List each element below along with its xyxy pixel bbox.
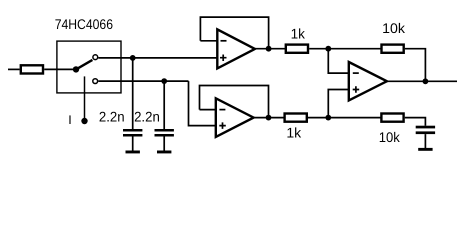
switch throw contact bottom (93, 79, 98, 84)
wire C1 top lead (132, 58, 134, 129)
capacitor C3 (416, 126, 435, 129)
node dot U1 output (266, 46, 272, 52)
control terminal dot (81, 118, 87, 124)
ground C2 (157, 151, 171, 154)
wire U3 plus input (328, 90, 349, 118)
resistor R3 10k top (382, 45, 404, 53)
svg-text:10k: 10k (379, 129, 401, 145)
op-amp U2 buffer bottom (216, 98, 254, 137)
node dot U2 output (266, 115, 272, 121)
op-amp U1 buffer top (217, 29, 255, 68)
U2 minus glyph (219, 109, 225, 111)
resistor R input (unlabeled) (21, 65, 43, 73)
control line (84, 76, 86, 121)
wire U3 output (387, 80, 457, 82)
U1 plus glyph (220, 54, 227, 61)
wire R4 to C3 (405, 118, 426, 126)
wire C3 bottom lead (424, 134, 426, 148)
wire U1 minus input (200, 40, 217, 42)
U3 minus glyph (353, 72, 359, 74)
svg-text:1k: 1k (291, 25, 306, 41)
wire R1 to node A (309, 48, 381, 50)
svg-text:I: I (68, 113, 71, 127)
wire R2 to node B (308, 117, 381, 119)
svg-text:2.2n: 2.2n (99, 108, 125, 124)
wire U1 feedback loop (200, 17, 268, 49)
node dot B (325, 115, 331, 121)
wire C2 top lead (163, 81, 165, 129)
node dot A (325, 46, 331, 52)
ground C3 (418, 148, 432, 151)
switch pole dot (73, 66, 79, 72)
capacitor C2 2.2n (155, 129, 174, 132)
wire input left (8, 68, 20, 70)
capacitor C1 2.2n (123, 129, 142, 132)
svg-text:1k: 1k (286, 125, 302, 141)
wire U1 output (255, 48, 286, 50)
op-amp U3 right (349, 62, 387, 100)
U3 plus glyph (353, 86, 360, 93)
resistor R1 1k top (286, 45, 308, 53)
wire R3 to output node (405, 49, 426, 82)
ground C1 (126, 151, 140, 154)
U1 minus glyph (221, 40, 227, 42)
wire U2 minus input (200, 109, 216, 111)
node dot C2 junction (161, 78, 167, 84)
wire top switch to buffer + input (98, 57, 217, 59)
wire C1 bottom lead (132, 137, 134, 151)
wire U2 output (254, 117, 285, 119)
wire U2 feedback loop (200, 86, 269, 118)
wire bottom switch out (98, 80, 188, 82)
resistor R2 1k bottom (285, 114, 307, 122)
U2 plus glyph (219, 122, 226, 129)
resistor R4 10k bottom (381, 114, 403, 122)
wire down to lower buffer + input (189, 81, 216, 126)
svg-text:10k: 10k (382, 20, 406, 36)
svg-text:2.2n: 2.2n (134, 108, 160, 124)
switch lever (76, 60, 92, 70)
node dot output feedback (423, 78, 429, 84)
svg-text:74HC4066: 74HC4066 (55, 16, 113, 32)
node dot C1 junction (130, 55, 136, 61)
wire C2 bottom lead (163, 137, 165, 151)
wire resistor to switch pole (44, 68, 76, 70)
switch throw contact top (93, 55, 98, 60)
wire node A down to U3 minus (328, 49, 349, 73)
IC box 74HC4066 (57, 41, 121, 93)
